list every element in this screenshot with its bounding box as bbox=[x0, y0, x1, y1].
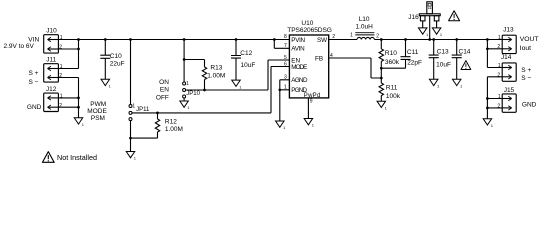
svg-text:S −: S − bbox=[29, 79, 39, 86]
wire MODE select vertical bbox=[130, 40, 132, 105]
warning triangle below C14 bbox=[461, 61, 471, 70]
svg-text:1: 1 bbox=[498, 94, 501, 100]
wire VIN rail bbox=[58, 39, 289, 41]
svg-text:JP11: JP11 bbox=[136, 107, 150, 113]
svg-text:Iout: Iout bbox=[520, 45, 531, 52]
ground below C13 bbox=[429, 79, 440, 88]
resistor R13 bbox=[184, 60, 225, 91]
svg-text:S +: S + bbox=[521, 67, 531, 74]
capacitor C13 bbox=[429, 40, 451, 80]
svg-text:C14: C14 bbox=[459, 49, 471, 56]
svg-text:2: 2 bbox=[497, 44, 500, 50]
svg-text:J10: J10 bbox=[46, 28, 57, 35]
svg-text:1: 1 bbox=[132, 103, 135, 109]
junction VOUT rail / C14 bbox=[455, 38, 458, 41]
svg-text:1: 1 bbox=[350, 33, 353, 39]
junction J15 pin1 bbox=[486, 97, 489, 100]
junction VIN rail / JP11 pin1 branch bbox=[129, 38, 132, 41]
capacitor C14 bbox=[452, 40, 471, 80]
inductor L10 bbox=[350, 16, 379, 39]
svg-text:2: 2 bbox=[376, 34, 379, 40]
svg-text:S +: S + bbox=[29, 70, 39, 77]
junction J13 pin2 bbox=[486, 47, 489, 50]
svg-text:360k: 360k bbox=[385, 59, 400, 66]
svg-text:C12: C12 bbox=[240, 50, 252, 57]
junction J12 pin1 bbox=[77, 97, 80, 100]
junction VIN rail / AVIN jog bbox=[273, 38, 276, 41]
svg-text:22pF: 22pF bbox=[407, 59, 422, 66]
wire VOUT rail bbox=[374, 39, 502, 41]
svg-text:Not Installed: Not Installed bbox=[57, 153, 97, 162]
svg-text:1: 1 bbox=[498, 35, 501, 41]
svg-text:R11: R11 bbox=[386, 85, 398, 92]
resistor R12 bbox=[155, 113, 183, 138]
wire AGND/PGND bbox=[280, 80, 290, 121]
svg-text:J12: J12 bbox=[46, 86, 57, 93]
svg-text:1: 1 bbox=[498, 63, 501, 69]
junction FB node bbox=[380, 77, 383, 80]
connector J12 bbox=[44, 86, 63, 112]
svg-text:OFF: OFF bbox=[156, 94, 169, 101]
connector J16 bbox=[408, 2, 440, 40]
ground below J12 bbox=[74, 118, 85, 127]
svg-text:ON: ON bbox=[159, 79, 169, 86]
svg-text:10uF: 10uF bbox=[436, 62, 451, 69]
ground below AGND bbox=[276, 121, 287, 130]
svg-text:R10: R10 bbox=[385, 50, 397, 57]
ground below JP11 bbox=[126, 152, 137, 161]
junction VOUT rail / J16 bbox=[428, 38, 431, 41]
svg-text:SW: SW bbox=[317, 37, 327, 44]
svg-text:AVIN: AVIN bbox=[291, 46, 305, 53]
svg-text:U10: U10 bbox=[301, 20, 313, 27]
svg-text:GND: GND bbox=[522, 102, 537, 109]
connector J10 bbox=[44, 28, 63, 54]
junction JP11 pin3 / R12 ground line bbox=[129, 137, 132, 140]
junction C11 bottom / R10 bbox=[380, 67, 383, 70]
svg-text:R13: R13 bbox=[210, 65, 222, 72]
svg-text:1: 1 bbox=[60, 64, 63, 70]
warning triangle Not Installed bbox=[42, 152, 54, 163]
junction R13 top branch bbox=[183, 58, 186, 61]
svg-text:JP10: JP10 bbox=[186, 91, 200, 97]
svg-text:9: 9 bbox=[310, 99, 313, 105]
junction J15 pin2 bbox=[486, 107, 489, 110]
svg-text:2: 2 bbox=[59, 45, 62, 51]
connector J13 bbox=[497, 27, 516, 54]
warning triangle near J16 bbox=[449, 11, 460, 21]
svg-text:R12: R12 bbox=[165, 118, 177, 125]
junction VIN rail / C10 bbox=[104, 38, 107, 41]
svg-text:C11: C11 bbox=[407, 49, 419, 56]
ground below J15 branch bbox=[483, 119, 494, 128]
junction VOUT rail / C11 bbox=[404, 38, 407, 41]
junction VOUT rail / C13 bbox=[432, 38, 435, 41]
svg-text:2: 2 bbox=[59, 103, 62, 109]
ground below PwPd bbox=[304, 119, 315, 128]
svg-text:TPS62065DSG: TPS62065DSG bbox=[287, 27, 332, 34]
svg-text:6: 6 bbox=[284, 61, 287, 67]
op IC U10 TPS62065DSG bbox=[284, 20, 335, 105]
svg-text:2: 2 bbox=[497, 72, 500, 78]
ground below C12 bbox=[232, 80, 243, 89]
wire J13 branch vertical bbox=[487, 40, 502, 68]
junction VIN rail / C12 bbox=[235, 38, 238, 41]
svg-text:GND: GND bbox=[27, 104, 42, 111]
ground below C10 bbox=[101, 79, 112, 88]
svg-text:1: 1 bbox=[60, 35, 63, 41]
wire EN select vertical bbox=[183, 40, 185, 82]
capacitor C10 bbox=[100, 40, 124, 80]
junction VOUT node L10-R10 bbox=[380, 38, 383, 41]
svg-text:VOUT: VOUT bbox=[520, 36, 539, 43]
svg-text:L10: L10 bbox=[359, 16, 370, 23]
svg-text:PSM: PSM bbox=[91, 115, 105, 122]
svg-text:1: 1 bbox=[284, 85, 287, 91]
svg-text:MODE: MODE bbox=[291, 64, 307, 71]
svg-text:PVIN: PVIN bbox=[291, 37, 305, 44]
ground below R11 bbox=[377, 101, 388, 110]
svg-text:EN: EN bbox=[160, 87, 169, 94]
wire J14 pin2 to J15 vertical bbox=[487, 77, 502, 119]
svg-text:2.9V to 6V: 2.9V to 6V bbox=[4, 43, 35, 50]
ground below JP10 bbox=[180, 101, 191, 110]
junction PGND / AGND vertical bbox=[278, 88, 281, 91]
svg-text:MODE: MODE bbox=[87, 108, 107, 115]
ground below C14 bbox=[452, 79, 463, 88]
capacitor C11 bbox=[381, 40, 422, 69]
jumper JP10 bbox=[183, 81, 201, 98]
svg-text:10uF: 10uF bbox=[241, 62, 256, 69]
svg-text:AGND: AGND bbox=[291, 77, 308, 84]
svg-text:C10: C10 bbox=[110, 53, 122, 60]
ground below J16 right pin bbox=[432, 28, 443, 37]
svg-text:J15: J15 bbox=[504, 87, 515, 94]
ground below J16 left pin bbox=[418, 28, 429, 37]
svg-text:7: 7 bbox=[284, 43, 287, 49]
connector J14 bbox=[497, 54, 516, 81]
wire JP10 pin3 to ground bbox=[183, 98, 185, 101]
junction J12 pin2 bbox=[77, 106, 80, 109]
svg-text:22uF: 22uF bbox=[110, 60, 125, 67]
svg-text:5: 5 bbox=[284, 55, 287, 61]
connector J15 bbox=[497, 87, 516, 112]
jumper JP11 bbox=[129, 103, 150, 120]
wire JP11 pin3 to ground bbox=[131, 121, 158, 152]
svg-text:J14: J14 bbox=[501, 54, 512, 61]
svg-text:S −: S − bbox=[521, 75, 531, 82]
junction J10 pin2 / S+ vertical bbox=[77, 48, 80, 51]
svg-text:2: 2 bbox=[497, 103, 500, 109]
wire MODE to JP11 bbox=[132, 67, 289, 113]
resistor R11 bbox=[379, 78, 401, 101]
svg-text:100k: 100k bbox=[386, 93, 401, 100]
wire FB bbox=[329, 58, 382, 78]
junction R12 top / MODE line bbox=[156, 112, 159, 115]
svg-text:3: 3 bbox=[284, 75, 287, 81]
wire S+ vertical bbox=[58, 40, 78, 69]
wire SW output bbox=[329, 39, 357, 41]
capacitor C12 bbox=[231, 40, 255, 81]
svg-text:C13: C13 bbox=[437, 49, 449, 56]
junction VOUT rail / J13 branch bbox=[486, 38, 489, 41]
junction VIN rail / S+ branch bbox=[77, 38, 80, 41]
wire S- to GND vertical bbox=[58, 78, 78, 118]
junction VIN rail / JP10-R13 branch bbox=[183, 38, 186, 41]
svg-text:8: 8 bbox=[284, 34, 287, 40]
svg-text:1: 1 bbox=[60, 94, 63, 100]
wire J10 pin2 bbox=[58, 48, 78, 50]
svg-text:J13: J13 bbox=[503, 27, 514, 34]
svg-text:FB: FB bbox=[315, 56, 323, 63]
svg-text:2: 2 bbox=[59, 73, 62, 79]
svg-text:1.00M: 1.00M bbox=[165, 126, 183, 133]
wire AVIN jog bbox=[274, 40, 289, 49]
svg-text:J11: J11 bbox=[46, 57, 56, 64]
svg-text:PWM: PWM bbox=[90, 101, 106, 108]
wire EN to IC bbox=[186, 60, 290, 90]
connector J11 bbox=[44, 57, 63, 83]
svg-text:1.0uH: 1.0uH bbox=[356, 23, 374, 30]
resistor R10 bbox=[379, 40, 400, 79]
svg-text:1.00M: 1.00M bbox=[207, 73, 225, 80]
svg-text:J16: J16 bbox=[408, 14, 419, 21]
wire PwPd to ground bbox=[307, 98, 309, 119]
svg-text:1: 1 bbox=[186, 81, 189, 87]
junction R13 bottom / EN line bbox=[203, 89, 206, 92]
